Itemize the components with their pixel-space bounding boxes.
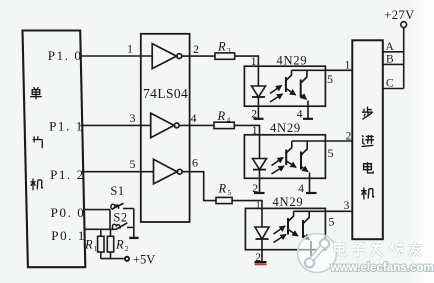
svg-text:A: A <box>386 41 395 53</box>
opto1 LED D1 <box>257 66 259 86</box>
opto3 internals <box>255 208 353 262</box>
inverter U1B <box>151 113 179 138</box>
svg-text:P1. 0: P1. 0 <box>48 48 83 63</box>
R2 bottom stub <box>110 252 112 259</box>
svg-text:4N29: 4N29 <box>270 121 301 135</box>
watermark 子 <box>351 243 365 256</box>
inverter U1C <box>154 159 183 184</box>
opto3 light arrows <box>274 226 286 234</box>
motor tap B wire <box>383 63 404 65</box>
resistor R3 <box>215 53 235 59</box>
svg-text:1: 1 <box>94 244 98 253</box>
wire +27V rail <box>403 28 405 89</box>
svg-text:+5V: +5V <box>133 252 155 266</box>
svg-text:5: 5 <box>228 188 232 197</box>
inverter U1A <box>152 44 182 69</box>
wire P1.1 to inverter 2 <box>81 124 151 126</box>
wire R1 R2 to +5V <box>101 258 124 260</box>
wire R4 to opto2 pin1 <box>234 125 259 134</box>
opto3 LED D3 <box>261 208 263 227</box>
wire R3 to opto1 pin1 <box>235 56 259 66</box>
switch S1 <box>111 203 134 209</box>
svg-text:3: 3 <box>227 46 231 55</box>
svg-text:4: 4 <box>191 111 197 125</box>
svg-text:2: 2 <box>125 244 129 253</box>
stepper motor M1 box (步进电机) <box>352 40 383 239</box>
wire inverter2 out to R4 <box>179 124 214 126</box>
text 机 <box>30 179 43 191</box>
svg-text:5: 5 <box>329 214 335 228</box>
svg-text:S1: S1 <box>110 184 124 198</box>
wire junction vertical P0.0-P0.1 <box>109 210 111 230</box>
opto2 internals <box>253 135 353 193</box>
svg-text:+27V: +27V <box>384 8 415 22</box>
svg-text:P0. 0: P0. 0 <box>51 205 86 220</box>
wire opto3 pin5 to motor pin3 <box>294 210 353 212</box>
resistor R1 <box>98 236 104 252</box>
optocoupler U4 4N29 box <box>245 208 325 249</box>
wire R5 to opto3 pin1 <box>232 201 262 209</box>
red tick mark under opto3 pin2 <box>255 263 267 265</box>
optocoupler U2 4N29 box <box>244 66 325 106</box>
text 机 <box>361 187 374 199</box>
svg-text:R: R <box>218 182 227 196</box>
svg-text:S2: S2 <box>113 210 127 224</box>
+5V terminal <box>125 257 129 261</box>
R1 bottom stub <box>100 252 102 259</box>
svg-text:3: 3 <box>344 200 350 212</box>
svg-text:4: 4 <box>227 116 231 125</box>
motor tap C wire <box>383 88 404 90</box>
text 进 <box>361 135 374 146</box>
svg-text:2: 2 <box>193 42 199 56</box>
svg-text:5: 5 <box>130 157 136 171</box>
opto1 phototransistor Q1 darlington <box>285 77 287 92</box>
opto2 LED D2 <box>259 135 261 159</box>
svg-text:R: R <box>84 238 93 252</box>
watermark 友 <box>408 242 421 256</box>
motor tap A wire <box>383 51 404 53</box>
resistor R4 <box>214 122 234 128</box>
wire P1.0 to inverter 1 <box>80 55 152 57</box>
switch S2 <box>113 223 134 230</box>
svg-text:4: 4 <box>298 183 304 195</box>
wire inverter3 out, step down to R5 <box>182 172 216 201</box>
opto2 pin4 stub bar <box>306 192 317 194</box>
svg-text:R: R <box>217 40 226 54</box>
resistor R5 <box>216 197 232 203</box>
text 片 <box>33 136 43 148</box>
optocoupler U3 4N29 box <box>244 135 325 179</box>
microcontroller U-MCU box (单片机) <box>23 31 86 268</box>
text 电 <box>364 162 374 173</box>
opto2 light arrows <box>272 158 284 166</box>
svg-text:R: R <box>115 238 124 252</box>
opto3 pin2 stub bar <box>255 261 267 263</box>
text 步 <box>362 107 373 120</box>
svg-text:4: 4 <box>297 109 303 121</box>
wire P1.2 to inverter 3 <box>81 171 153 173</box>
svg-text:B: B <box>386 53 394 65</box>
svg-text:1: 1 <box>127 42 133 56</box>
svg-text:C: C <box>386 77 394 89</box>
svg-text:1: 1 <box>256 201 261 211</box>
R2 top stub <box>110 229 112 236</box>
wire inverter1 out to R3 <box>182 55 215 57</box>
watermark 烧 <box>390 242 404 252</box>
svg-text:P1. 2: P1. 2 <box>50 167 85 182</box>
svg-text:2: 2 <box>346 130 352 142</box>
watermark logo <box>298 234 337 273</box>
svg-text:www.elecfans.com: www.elecfans.com <box>330 261 434 274</box>
opto1 light arrows <box>270 86 282 94</box>
svg-text:2: 2 <box>255 252 261 264</box>
svg-text:74LS04: 74LS04 <box>143 86 188 101</box>
watermark 发 <box>371 242 382 256</box>
+27V terminal <box>401 22 407 28</box>
svg-text:4N29: 4N29 <box>273 195 304 209</box>
svg-text:R: R <box>217 109 226 123</box>
opto2 phototransistor Q2 darlington <box>285 150 287 166</box>
wire P0.1 <box>84 228 116 230</box>
svg-text:2: 2 <box>251 109 257 121</box>
opto1 pin2 stub bar <box>254 118 264 120</box>
svg-text:P1. 1: P1. 1 <box>49 118 84 133</box>
wire P0.0 <box>84 209 111 211</box>
svg-text:6: 6 <box>192 156 198 170</box>
resistor R2 <box>107 236 113 252</box>
opto3 phototransistor Q3 darlington <box>287 218 289 235</box>
svg-text:2: 2 <box>252 183 258 195</box>
ground <box>129 237 138 239</box>
opto1 internals <box>252 66 353 119</box>
wire opto1 pin5 to motor pin1 <box>292 69 353 71</box>
svg-text:5: 5 <box>327 72 333 86</box>
opto2 pin2 stub bar <box>254 192 265 194</box>
IC 74LS04 box <box>141 34 190 222</box>
svg-text:1: 1 <box>345 60 351 72</box>
svg-text:5: 5 <box>328 146 334 160</box>
svg-text:4N29: 4N29 <box>277 54 308 68</box>
watermark 电 <box>335 242 346 255</box>
svg-text:P0. 1: P0. 1 <box>51 228 86 243</box>
R1 top stub <box>100 229 102 236</box>
wire opto2 pin5 to motor pin2 <box>292 140 353 142</box>
wire to ground <box>133 209 135 238</box>
opto1 pin4 stub bar <box>303 118 313 120</box>
svg-text:3: 3 <box>130 111 136 125</box>
text 单 <box>30 87 42 99</box>
